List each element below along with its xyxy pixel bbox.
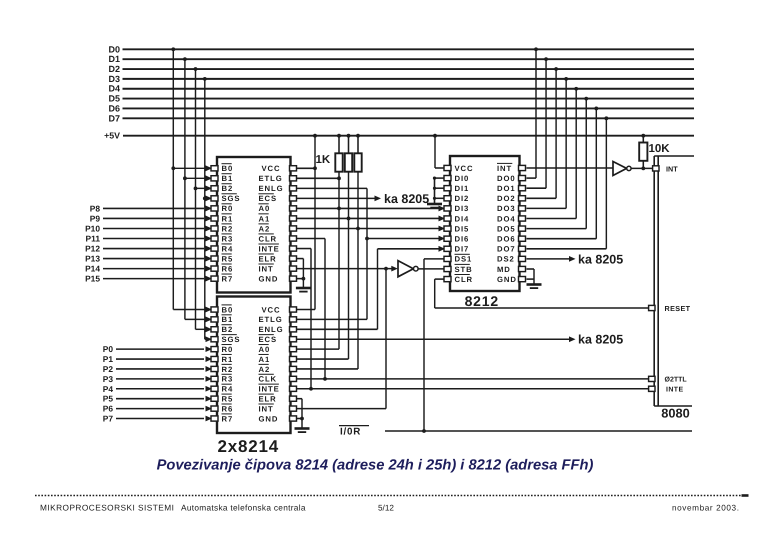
svg-text:2x8214: 2x8214 bbox=[217, 437, 279, 456]
svg-text:B2: B2 bbox=[222, 325, 234, 334]
inverter U5 bbox=[613, 162, 631, 176]
junction dropline D2/B-pin top 8214 bbox=[194, 186, 198, 190]
junction D0/dropline bbox=[171, 47, 175, 51]
wire 10K bottom lead bbox=[642, 161, 644, 169]
svg-text:DO5: DO5 bbox=[497, 224, 516, 233]
wire INT1 to inverter bbox=[297, 268, 393, 270]
svg-text:ka 8205: ka 8205 bbox=[384, 192, 429, 206]
wire D1 bus bbox=[123, 58, 695, 60]
wire P12 bbox=[103, 248, 204, 250]
svg-text:GND: GND bbox=[497, 275, 517, 284]
wire D0 to bottom 8214 pin bbox=[173, 309, 211, 311]
svg-text:P12: P12 bbox=[85, 244, 100, 254]
svg-text:B0: B0 bbox=[222, 305, 234, 314]
svg-text:R5: R5 bbox=[222, 394, 234, 403]
wire DO5 riser bbox=[585, 99, 587, 229]
wire P4 bbox=[116, 388, 204, 390]
junction D1/DO1 riser bbox=[544, 57, 548, 61]
svg-text:DO3: DO3 bbox=[497, 204, 516, 213]
svg-text:R7: R7 bbox=[222, 274, 234, 283]
ground top 8214 bbox=[296, 288, 311, 292]
svg-text:D6: D6 bbox=[108, 103, 120, 113]
wire MD bbox=[527, 268, 535, 270]
wire ENLG2 bbox=[297, 328, 378, 330]
wire P2 bbox=[116, 368, 204, 370]
wire D2 to top 8214 pin bbox=[196, 187, 212, 189]
junction D4/DO4 riser bbox=[574, 87, 578, 91]
svg-text:RESET: RESET bbox=[665, 304, 691, 313]
wire DO3 bbox=[527, 207, 567, 209]
ground bottom 8214 bbox=[295, 429, 310, 433]
wire INTE1-INTE2 vertical bbox=[310, 249, 312, 389]
wire DO0 riser bbox=[535, 49, 537, 178]
wire R1 top lead bbox=[338, 136, 340, 154]
wire DO3 riser bbox=[565, 79, 567, 209]
svg-text:INT: INT bbox=[497, 164, 512, 173]
IC U3 8212 bbox=[444, 156, 526, 291]
wire inverter out to STB bbox=[418, 268, 444, 270]
svg-text:A1: A1 bbox=[259, 214, 271, 223]
resistor R3 1K bbox=[354, 153, 361, 171]
svg-text:+5V: +5V bbox=[104, 131, 120, 141]
svg-text:5/12: 5/12 bbox=[378, 503, 394, 512]
wire ECS2 to 8205 bbox=[297, 338, 570, 340]
svg-text:P11: P11 bbox=[86, 234, 101, 244]
wire GND 8212 bbox=[527, 278, 535, 280]
svg-text:DO0: DO0 bbox=[497, 174, 516, 183]
svg-text:CLR: CLR bbox=[259, 234, 278, 243]
wire CLK1 bbox=[297, 238, 326, 240]
wire P11 bbox=[103, 238, 204, 240]
svg-text:DI2: DI2 bbox=[455, 194, 470, 203]
svg-text:D1: D1 bbox=[108, 54, 120, 64]
wire MD/GND vertical bbox=[533, 269, 535, 284]
wire D0 to top 8214 pin bbox=[173, 167, 211, 169]
svg-text:10K: 10K bbox=[649, 143, 671, 155]
svg-text:I/0R: I/0R bbox=[340, 427, 361, 438]
wire R3 top lead bbox=[357, 136, 359, 154]
svg-text:INTE: INTE bbox=[259, 385, 280, 394]
svg-text:A2: A2 bbox=[259, 365, 271, 374]
wire DO5 bbox=[527, 228, 587, 230]
wire VCC top-8214 bbox=[297, 167, 316, 169]
footer dotted rule bbox=[35, 495, 741, 497]
wire ELR2 bbox=[297, 398, 303, 400]
wire v5 vertical bbox=[377, 249, 379, 330]
wire DI1 stub bbox=[435, 187, 445, 189]
wire GND2 bbox=[297, 418, 303, 420]
svg-text:DO1: DO1 bbox=[497, 184, 516, 193]
svg-text:R4: R4 bbox=[222, 244, 234, 253]
wire DO1 bbox=[527, 187, 547, 189]
wire D7 bus bbox=[123, 117, 695, 119]
svg-text:D4: D4 bbox=[108, 84, 120, 94]
svg-text:A0: A0 bbox=[259, 345, 271, 354]
svg-text:SGS: SGS bbox=[222, 335, 241, 344]
wire DO0 bbox=[527, 177, 537, 179]
wire +5V rail bbox=[123, 135, 694, 137]
junction A2/v3 bbox=[356, 227, 360, 231]
junction GND2 bbox=[300, 417, 304, 421]
IC U2 8214 (lower) bbox=[211, 297, 297, 434]
svg-text:MIKROPROCESORSKI SISTEMI: MIKROPROCESORSKI SISTEMI bbox=[40, 502, 174, 512]
wire D3 to top 8214 pin bbox=[205, 197, 211, 199]
svg-text:D7: D7 bbox=[108, 113, 120, 123]
svg-text:INT: INT bbox=[259, 264, 274, 273]
wire CLR 8212 bbox=[435, 278, 444, 280]
junction +5V/VCC riser bbox=[313, 134, 317, 138]
junction D2/DO2 riser bbox=[554, 67, 558, 71]
svg-text:VCC: VCC bbox=[455, 164, 474, 173]
wire inverter to 8080 INT bbox=[631, 167, 653, 169]
wire DS1 to I/OR vertical bbox=[423, 259, 425, 431]
svg-text:R4: R4 bbox=[222, 385, 234, 394]
junction +5V/R3 bbox=[356, 134, 360, 138]
wire A1-2 elbow bbox=[297, 358, 349, 360]
IC U6 8080 CPU bbox=[649, 156, 694, 406]
svg-text:P15: P15 bbox=[85, 274, 100, 284]
junction INTE vertical/INTE row bbox=[309, 387, 313, 391]
junction A0/v1 bbox=[337, 207, 341, 211]
wire DS1 bbox=[424, 258, 444, 260]
svg-text:ECS: ECS bbox=[259, 194, 278, 203]
svg-text:DI7: DI7 bbox=[455, 245, 470, 254]
wire A1 net to DI4 bbox=[297, 217, 445, 219]
svg-text:D5: D5 bbox=[108, 94, 120, 104]
junction D0/DO0 riser bbox=[534, 47, 538, 51]
svg-text:DO7: DO7 bbox=[497, 245, 516, 254]
wire ELR2/GND2 vertical bbox=[301, 399, 303, 429]
svg-text:A1: A1 bbox=[259, 355, 271, 364]
svg-text:P4: P4 bbox=[103, 384, 114, 394]
wire D2 to bottom 8214 pin bbox=[196, 328, 212, 330]
wire D4 bus bbox=[123, 88, 695, 90]
svg-text:P7: P7 bbox=[103, 414, 114, 424]
ground 8212 bbox=[527, 285, 542, 289]
resistor 10K bbox=[639, 143, 647, 161]
wire VCC bottom-8214 bbox=[297, 309, 316, 311]
svg-text:A0: A0 bbox=[259, 204, 271, 213]
wire 8212 INT to inverter bbox=[527, 167, 613, 169]
svg-text:DS1: DS1 bbox=[455, 255, 473, 264]
wire CLR/RESET vertical bbox=[434, 279, 436, 308]
svg-text:P3: P3 bbox=[103, 374, 114, 384]
wire DO4 bbox=[527, 218, 577, 220]
svg-text:DO2: DO2 bbox=[497, 194, 516, 203]
wire DO6 bbox=[527, 238, 597, 240]
svg-text:INT: INT bbox=[259, 404, 274, 413]
junction dropline D1/B-pin top 8214 bbox=[183, 176, 187, 180]
wire D2 dropline bbox=[195, 69, 197, 329]
wire I/OR bbox=[385, 430, 692, 432]
svg-text:ELR: ELR bbox=[259, 394, 277, 403]
wire to DI6 bbox=[367, 238, 444, 240]
wire ELR1 bbox=[297, 258, 304, 260]
wire D1 to bottom 8214 pin bbox=[185, 318, 211, 320]
footer rule end dash bbox=[742, 494, 749, 497]
svg-text:INTE: INTE bbox=[259, 244, 280, 253]
svg-text:Povezivanje čipova 8214 (adres: Povezivanje čipova 8214 (adrese 24h i 25… bbox=[157, 458, 594, 474]
wire P3 bbox=[116, 378, 204, 380]
svg-text:STB: STB bbox=[455, 265, 473, 274]
wire INTE1 stub bbox=[297, 248, 312, 250]
junction DI1 tie bbox=[433, 187, 436, 190]
junction +5V/R2 bbox=[347, 134, 351, 138]
ground DI0-DI2 bbox=[427, 204, 442, 208]
junction vCLK/CLK2 row bbox=[323, 377, 327, 381]
svg-text:DI4: DI4 bbox=[455, 214, 470, 223]
svg-text:DI5: DI5 bbox=[455, 224, 470, 233]
svg-text:DO4: DO4 bbox=[497, 214, 516, 223]
wire ENLG1 bbox=[297, 187, 368, 189]
wire P9 bbox=[103, 217, 204, 219]
svg-text:CLR: CLR bbox=[455, 275, 474, 284]
svg-text:R0: R0 bbox=[222, 204, 234, 213]
junction ETLG1/v1 bbox=[337, 176, 341, 180]
wire P14 bbox=[103, 268, 204, 270]
svg-text:ENLG: ENLG bbox=[259, 325, 284, 334]
wire INTE net bbox=[297, 388, 649, 390]
wire P10 bbox=[103, 227, 204, 229]
wire DS2 to 8205 bbox=[527, 258, 570, 260]
svg-text:P1: P1 bbox=[103, 354, 114, 364]
wire 8212 VCC riser bbox=[434, 136, 436, 168]
svg-text:Automatska telefonska centrala: Automatska telefonska centrala bbox=[181, 502, 306, 512]
svg-text:MD: MD bbox=[497, 265, 511, 274]
svg-text:novembar 2003.: novembar 2003. bbox=[672, 503, 740, 512]
svg-text:GND: GND bbox=[259, 414, 279, 423]
svg-text:D3: D3 bbox=[108, 74, 120, 84]
wire A0-2 elbow bbox=[297, 348, 340, 350]
svg-text:P9: P9 bbox=[90, 213, 101, 223]
svg-text:VCC: VCC bbox=[262, 305, 281, 314]
junction D6/DO6 riser bbox=[594, 107, 598, 111]
junction +5V/8212 VCC bbox=[433, 134, 437, 138]
svg-text:R3: R3 bbox=[222, 375, 234, 384]
wire 8212 VCC bbox=[435, 167, 444, 169]
wire DO7 bbox=[527, 248, 607, 250]
svg-text:Ø2TTL: Ø2TTL bbox=[665, 376, 688, 384]
svg-text:DO6: DO6 bbox=[497, 235, 516, 244]
svg-text:P6: P6 bbox=[103, 404, 114, 414]
wire DO2 bbox=[527, 197, 557, 199]
junction DS1/IOR bbox=[422, 429, 426, 433]
wire VCC riser bbox=[314, 136, 316, 310]
wire v2 pullup/A1 net vertical bbox=[348, 172, 350, 359]
svg-text:R5: R5 bbox=[222, 254, 234, 263]
svg-text:1K: 1K bbox=[316, 154, 331, 166]
svg-text:ETLG: ETLG bbox=[259, 315, 283, 324]
wire D2 bus bbox=[123, 68, 695, 70]
svg-text:VCC: VCC bbox=[262, 164, 281, 173]
wire D0 bus bbox=[123, 48, 695, 50]
wire v3 pullup/A2 net vertical bbox=[357, 172, 359, 369]
svg-text:B2: B2 bbox=[222, 184, 234, 193]
wire INT2 bbox=[297, 408, 387, 410]
wire DI0-DI2 tie bar bbox=[434, 178, 436, 203]
wire DO2 riser bbox=[555, 69, 557, 198]
svg-text:R0: R0 bbox=[222, 345, 234, 354]
wire P13 bbox=[103, 258, 204, 260]
svg-text:CLK: CLK bbox=[259, 375, 278, 384]
wire P7 bbox=[116, 418, 204, 420]
wire P0 bbox=[116, 348, 204, 350]
junction INT1/INT2 bbox=[384, 267, 388, 271]
wire 10K top lead bbox=[642, 136, 644, 143]
svg-text:DI1: DI1 bbox=[455, 184, 470, 193]
wire P8 bbox=[103, 207, 204, 209]
wire ETLG1 to pullup bbox=[297, 177, 340, 179]
junction dropline D3/B-pin top 8214 bbox=[203, 196, 207, 200]
wire DI0 stub bbox=[435, 177, 445, 179]
svg-text:D0: D0 bbox=[108, 44, 120, 54]
svg-text:B1: B1 bbox=[222, 174, 234, 183]
wire D3 to bottom 8214 pin bbox=[205, 338, 211, 340]
wire D1 to top 8214 pin bbox=[185, 177, 211, 179]
wire v6 INT2 vertical bbox=[385, 269, 387, 409]
junction D3/DO3 riser bbox=[564, 77, 568, 81]
junction D3/dropline bbox=[203, 77, 207, 81]
svg-text:R6: R6 bbox=[222, 264, 234, 273]
wire D6 bus bbox=[123, 107, 695, 109]
wire DO7 riser bbox=[605, 118, 607, 248]
resistor R1 1K bbox=[335, 153, 342, 171]
svg-text:A2: A2 bbox=[259, 224, 271, 233]
svg-text:B0: B0 bbox=[222, 164, 234, 173]
svg-text:R3: R3 bbox=[222, 234, 234, 243]
wire to DI7 bbox=[378, 248, 445, 250]
wire P5 bbox=[116, 398, 204, 400]
svg-text:R2: R2 bbox=[222, 365, 234, 374]
wire D5 bus bbox=[123, 98, 695, 100]
junction +5V/10K bbox=[641, 134, 645, 138]
junction A1/v2 bbox=[347, 217, 351, 221]
junction GND1 bbox=[302, 277, 306, 281]
wire vCLK vertical bbox=[324, 239, 326, 379]
svg-text:ECS: ECS bbox=[259, 335, 278, 344]
junction DI2 tie bbox=[433, 197, 436, 200]
wire DI2 stub bbox=[435, 197, 445, 199]
wire ELR1/GND1 vertical bbox=[302, 259, 304, 288]
wire v1 pullup/A0 net vertical bbox=[338, 172, 340, 349]
wire P6 bbox=[116, 408, 204, 410]
svg-text:P8: P8 bbox=[90, 203, 101, 213]
resistor R2 1K bbox=[345, 153, 352, 171]
junction 10K/INT bbox=[641, 167, 645, 171]
IC U1 8214 (upper) bbox=[211, 157, 297, 293]
svg-text:INT: INT bbox=[666, 164, 678, 173]
wire v4 ENLG1-ETLG2 vertical bbox=[366, 188, 368, 319]
svg-text:ENLG: ENLG bbox=[259, 184, 284, 193]
svg-text:P14: P14 bbox=[85, 264, 100, 274]
inverter U4 bbox=[398, 261, 418, 277]
wire RESET bbox=[435, 307, 649, 309]
wire D3 bus bbox=[123, 78, 695, 80]
svg-text:R7: R7 bbox=[222, 414, 234, 423]
junction D2/dropline bbox=[194, 67, 198, 71]
svg-text:8212: 8212 bbox=[465, 293, 499, 309]
svg-text:P2: P2 bbox=[103, 364, 114, 374]
junction D5/DO5 riser bbox=[584, 97, 588, 101]
junction DI0 tie bbox=[433, 177, 436, 180]
junction VCC riser/top chip bbox=[313, 166, 317, 170]
svg-text:GND: GND bbox=[259, 274, 279, 283]
svg-text:DI6: DI6 bbox=[455, 235, 470, 244]
svg-text:DI3: DI3 bbox=[455, 204, 470, 213]
wire P1 bbox=[116, 358, 204, 360]
svg-text:ka 8205: ka 8205 bbox=[578, 252, 623, 266]
svg-text:R1: R1 bbox=[222, 355, 234, 364]
wire DO1 riser bbox=[545, 59, 547, 188]
wire P15 bbox=[103, 278, 204, 280]
wire ECS1 to 8205 bbox=[297, 197, 376, 199]
svg-text:8080: 8080 bbox=[661, 406, 689, 421]
svg-text:DI0: DI0 bbox=[455, 174, 470, 183]
svg-text:ELR: ELR bbox=[259, 254, 277, 263]
junction D7/DO7 riser bbox=[604, 116, 608, 120]
wire A0 net to DI3 bbox=[297, 207, 445, 209]
wire D3 dropline bbox=[204, 79, 206, 339]
svg-text:SGS: SGS bbox=[222, 194, 241, 203]
svg-text:R6: R6 bbox=[222, 404, 234, 413]
svg-text:P10: P10 bbox=[85, 223, 100, 233]
svg-text:P0: P0 bbox=[103, 344, 114, 354]
junction v4/DI6 branch bbox=[365, 237, 369, 241]
wire R2 top lead bbox=[348, 136, 350, 154]
svg-text:B1: B1 bbox=[222, 315, 234, 324]
junction D1/dropline bbox=[183, 57, 187, 61]
junction +5V/R1 bbox=[337, 134, 341, 138]
svg-text:ka 8205: ka 8205 bbox=[578, 333, 623, 347]
wire D0 dropline bbox=[172, 49, 174, 309]
svg-text:ETLG: ETLG bbox=[259, 174, 283, 183]
wire A2-2 elbow bbox=[297, 368, 359, 370]
wire ETLG2 bbox=[297, 318, 368, 320]
svg-text:D2: D2 bbox=[108, 64, 120, 74]
wire A2 net to DI5 bbox=[297, 227, 445, 229]
svg-text:DS2: DS2 bbox=[497, 255, 515, 264]
svg-text:INTE: INTE bbox=[666, 386, 684, 393]
svg-text:P5: P5 bbox=[103, 394, 114, 404]
wire GND1 bbox=[297, 278, 304, 280]
wire CLK2 / phase2TTL bbox=[297, 378, 649, 380]
svg-text:R1: R1 bbox=[222, 214, 234, 223]
wire DO4 riser bbox=[575, 89, 577, 219]
junction dropline D0/B-pin top 8214 bbox=[171, 166, 175, 170]
svg-text:R2: R2 bbox=[222, 224, 234, 233]
wire D1 dropline bbox=[184, 59, 186, 319]
svg-text:P13: P13 bbox=[85, 254, 100, 264]
wire DO6 riser bbox=[595, 108, 597, 238]
